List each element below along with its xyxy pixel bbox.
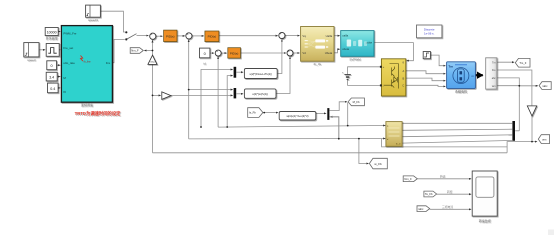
svg-text:TRTD为调速时间的设定: TRTD为调速时间的设定: [75, 110, 122, 117]
svg-text:sqrt(u(1)^2+u(2)^2): sqrt(u(1)^2+u(2)^2): [286, 114, 308, 118]
svg-text:+: +: [280, 32, 282, 36]
svg-text:0: 0: [51, 64, 53, 68]
svg-text:iabc: iabc: [543, 84, 549, 88]
svg-text:Te_Fb: Te_Fb: [425, 192, 433, 196]
svg-text:speed: speed: [27, 58, 36, 62]
svg-text:wm: wm: [492, 85, 496, 88]
svg-text:2r_3s: 2r_3s: [314, 62, 322, 66]
svg-text:PID(s): PID(s): [166, 34, 175, 38]
svg-text:永磁电机: 永磁电机: [455, 89, 467, 94]
svg-text:C: C: [402, 84, 404, 88]
svg-text:变频调速: 变频调速: [81, 102, 93, 107]
svg-text:speed1: speed1: [88, 18, 98, 22]
svg-text:ualfa: ualfa: [342, 33, 348, 37]
svg-text:th_line: th_line: [84, 60, 92, 63]
svg-text:ubeta: ubeta: [342, 47, 349, 51]
svg-text:+: +: [216, 50, 218, 54]
svg-text:Nm_F: Nm_F: [131, 49, 139, 53]
svg-text:Tm: Tm: [492, 61, 495, 64]
svg-text:10000: 10000: [47, 31, 57, 35]
svg-text:A: A: [402, 69, 404, 73]
svg-text:三相电流: 三相电流: [442, 205, 453, 209]
svg-text:f0: f0: [63, 90, 66, 94]
svg-text:PID(s): PID(s): [230, 51, 239, 55]
svg-text:+: +: [290, 55, 292, 59]
svg-text:B: B: [402, 76, 404, 80]
svg-text:Fre_set: Fre_set: [63, 46, 73, 50]
svg-text:M_Fb: M_Fb: [353, 100, 360, 104]
svg-text:Tm_F: Tm_F: [519, 61, 526, 65]
svg-text:id: id: [204, 61, 207, 65]
svg-text:转速监视: 转速监视: [479, 218, 491, 223]
svg-text:u(2)*(Flux+Ld*u(1)): u(2)*(Flux+Ld*u(1)): [250, 72, 272, 76]
svg-text:u0o_rate: u0o_rate: [63, 61, 75, 65]
svg-text:0.4: 0.4: [50, 87, 55, 91]
svg-text:Nm_F: Nm_F: [404, 177, 412, 181]
svg-text:转速: 转速: [440, 175, 446, 179]
svg-text:30/pi: 30/pi: [150, 62, 155, 64]
svg-text:th_m: th_m: [396, 143, 401, 146]
svg-text:3.4: 3.4: [49, 76, 54, 80]
svg-text:0: 0: [204, 52, 206, 56]
svg-text:+: +: [282, 37, 284, 41]
svg-text:PWM_Fre: PWM_Fre: [63, 32, 76, 36]
svg-text:Tm: Tm: [448, 64, 453, 68]
svg-text:转矩: 转矩: [447, 190, 453, 194]
svg-text:开关频率: 开关频率: [46, 36, 58, 41]
svg-text:m: m: [472, 75, 474, 78]
svg-text:iabc: iabc: [418, 207, 424, 211]
svg-text:Vq: Vq: [302, 34, 306, 38]
svg-text:Is_Fb: Is_Fb: [249, 111, 256, 115]
svg-text:-: -: [383, 84, 384, 88]
svg-text:+: +: [187, 32, 189, 36]
svg-text:-: -: [189, 37, 190, 41]
svg-text:+: +: [288, 49, 290, 53]
svg-text:Ualfa: Ualfa: [326, 34, 333, 38]
svg-text:w_Fb: w_Fb: [374, 162, 382, 166]
svg-text:SVPWM: SVPWM: [349, 58, 361, 62]
svg-text:PID(s): PID(s): [208, 35, 217, 39]
svg-text:-: -: [219, 55, 220, 59]
svg-text:Vd: Vd: [302, 51, 306, 55]
svg-text:u(2)*(Lq*u(1)): u(2)*(Lq*u(1)): [252, 92, 268, 96]
svg-text:Ubeta: Ubeta: [325, 51, 333, 55]
svg-text:Fre: Fre: [106, 61, 111, 65]
svg-text:1e-06 s.: 1e-06 s.: [424, 31, 435, 35]
svg-text:+: +: [151, 33, 153, 37]
svg-text:-: -: [153, 38, 154, 42]
